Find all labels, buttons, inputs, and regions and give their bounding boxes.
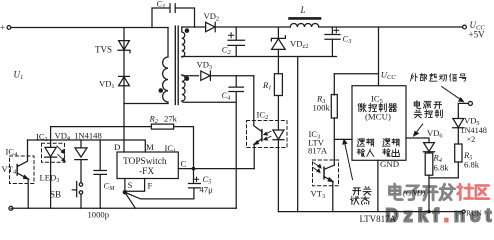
svg-text:1N4148: 1N4148 xyxy=(461,126,487,135)
label 电源开 xyxy=(414,101,420,109)
source pin S xyxy=(124,179,126,193)
svg-text:D: D xyxy=(114,142,120,152)
zener VDz2 xyxy=(277,27,279,38)
capacitor C4 xyxy=(229,76,244,92)
svg-text:47μ: 47μ xyxy=(200,185,214,195)
pushbutton SB xyxy=(79,183,82,186)
wire: MCU GND pin xyxy=(377,160,379,211)
label 关控制 xyxy=(414,110,422,118)
svg-text:IC3: IC3 xyxy=(36,132,48,144)
secondary 1 polarity dot xyxy=(185,28,190,33)
transformer bias winding 2 xyxy=(182,75,185,101)
wire: TVS/VD1 branch vertical xyxy=(123,28,125,104)
label 逻辑输入 xyxy=(357,139,365,146)
wire: MCU Ucc drop xyxy=(378,27,380,86)
svg-text:817A: 817A xyxy=(308,146,328,156)
C2 plus sign xyxy=(229,33,234,38)
primary bottom terminal xyxy=(9,206,13,210)
IC5 MCU box xyxy=(352,86,406,161)
label 状态 xyxy=(350,196,358,204)
diode VD4 xyxy=(80,140,82,148)
wire: bias return / C4 bottom xyxy=(182,92,236,209)
transformer core xyxy=(175,26,178,105)
external signal terminal xyxy=(468,101,472,105)
output Ucc terminal xyxy=(463,25,467,29)
wire: bias supply line xyxy=(210,75,253,77)
svg-text:(MCU): (MCU) xyxy=(365,112,391,122)
svg-text:IC1: IC1 xyxy=(165,143,177,155)
svg-text:VD1: VD1 xyxy=(99,79,115,91)
bias winding polarity dot xyxy=(185,76,190,81)
svg-text:VT3: VT3 xyxy=(311,189,326,201)
resistor R3 xyxy=(333,74,335,95)
wire: bias R3 feed line xyxy=(334,73,378,75)
C5 plus sign xyxy=(194,177,198,181)
capacitor C3 xyxy=(325,27,340,57)
wire: MCU logic output to VD6 xyxy=(406,138,429,142)
svg-text:S: S xyxy=(128,180,133,190)
optocoupler IC3 LED dashed box xyxy=(42,143,65,162)
watermark line1: 电子开发社区 xyxy=(389,183,489,200)
IC2 phototransistor xyxy=(261,130,263,141)
capacitor CM xyxy=(94,140,106,208)
VT3 light arrows xyxy=(313,163,321,172)
wire: secondary ground rail xyxy=(182,56,337,58)
wire: secondary bottom rail xyxy=(278,211,462,213)
IC2 light arrows xyxy=(265,131,271,139)
IC1 TOPSwitch-FX box xyxy=(117,152,178,179)
LED3 emission arrows xyxy=(57,146,64,161)
C node junction dot xyxy=(192,167,196,171)
wire: C5 bottom to source xyxy=(125,192,194,199)
label 外部起动信号 xyxy=(410,74,417,81)
F pin tie to S xyxy=(125,179,145,192)
svg-text:+5V: +5V xyxy=(469,30,486,40)
svg-text:VDz2: VDz2 xyxy=(290,39,308,51)
annotation arrow to ext terminal xyxy=(442,87,461,100)
svg-text:VD2: VD2 xyxy=(204,11,220,23)
wire: R5 bottom joins R4 xyxy=(429,162,458,178)
diode VD5 xyxy=(453,119,464,128)
LED3 xyxy=(45,147,56,156)
svg-text:M: M xyxy=(146,142,154,152)
svg-text:C3: C3 xyxy=(343,34,352,46)
IC2 LED xyxy=(273,130,284,139)
diode VD2 xyxy=(206,22,215,31)
wire: secondary ground drop to bottom rail xyxy=(297,57,299,212)
svg-text:SB: SB xyxy=(50,190,61,200)
wire: S to bottom rail xyxy=(125,192,135,208)
C3 plus sign xyxy=(334,28,339,33)
transformer primary winding xyxy=(163,28,168,104)
svg-text:C: C xyxy=(181,159,187,169)
diode VD3 xyxy=(182,74,199,77)
svg-text:CM: CM xyxy=(104,181,116,193)
inductor L core bar xyxy=(290,17,321,20)
rail junction dot at R4 xyxy=(427,210,431,214)
svg-text:IC4: IC4 xyxy=(6,147,19,159)
svg-text:TOPSwitch: TOPSwitch xyxy=(123,157,167,167)
annotation arrow power switch control xyxy=(415,124,423,134)
svg-text:TVS: TVS xyxy=(95,45,112,55)
svg-text:UCC: UCC xyxy=(381,70,396,82)
wire: primary bottom rail xyxy=(11,207,236,209)
svg-text:VD3: VD3 xyxy=(197,60,213,72)
svg-text:VT4: VT4 xyxy=(2,164,17,176)
svg-text:(GND): (GND) xyxy=(403,189,426,198)
svg-text:F: F xyxy=(148,181,153,191)
VT3 phototransistor xyxy=(323,167,325,179)
wire: R2 net xyxy=(51,126,152,128)
svg-text:6.8k: 6.8k xyxy=(464,160,480,170)
S node dot xyxy=(123,190,128,195)
label 开关 xyxy=(353,188,361,195)
wire: control pin wire to IC2 emitter xyxy=(178,168,254,170)
svg-text:LTV817A: LTV817A xyxy=(360,214,397,224)
wire: logic input to MCU xyxy=(334,138,352,140)
wire: R2 net down to LED3 xyxy=(50,127,52,148)
wire: +5V top rail xyxy=(215,26,462,28)
svg-text:U1: U1 xyxy=(14,70,24,82)
transformer secondary winding 1 xyxy=(182,27,185,57)
IC4 phototransistor VT4 xyxy=(16,165,18,175)
TVS transient suppressor xyxy=(119,41,130,50)
svg-text:L: L xyxy=(300,5,306,15)
watermark line2: Dzkf.net xyxy=(386,206,494,226)
svg-text:C2: C2 xyxy=(222,45,232,57)
run terminal xyxy=(462,210,465,213)
svg-text:GND: GND xyxy=(380,159,399,169)
wire: M pin net xyxy=(28,140,146,152)
input + terminal xyxy=(7,26,11,30)
wire: IC2 collector drop xyxy=(253,76,255,126)
svg-text:×2: ×2 xyxy=(467,135,476,144)
resistor R5 xyxy=(455,144,462,162)
capacitor C5 xyxy=(189,169,201,199)
capacitor C2 xyxy=(228,27,245,57)
label 微控制器 xyxy=(358,103,366,111)
svg-text:LED3: LED3 xyxy=(40,173,60,185)
wire: secondary1 top to VD2 xyxy=(182,26,206,28)
annotation arrow switch state xyxy=(345,143,353,180)
svg-text:100k: 100k xyxy=(313,103,331,113)
wire: top primary rail xyxy=(11,27,168,29)
svg-text:RUN: RUN xyxy=(466,209,482,218)
resistor R1 xyxy=(274,74,282,96)
optocoupler IC4 dashed box xyxy=(10,156,35,184)
wire: R2 right lead down to C node xyxy=(174,127,194,169)
optocoupler IC2 dashed box xyxy=(247,121,288,148)
svg-text:1000p: 1000p xyxy=(88,210,109,220)
wire: ext signal to VD5 xyxy=(458,103,468,118)
svg-text:VD6: VD6 xyxy=(427,128,443,140)
svg-text:R1: R1 xyxy=(262,80,271,92)
resistor R2 xyxy=(151,124,173,129)
diode VD6 xyxy=(424,143,435,152)
svg-text:-FX: -FX xyxy=(139,167,154,177)
svg-text:6.8k: 6.8k xyxy=(434,163,450,173)
IC3 phototransistor VT3 dashed box xyxy=(313,160,339,186)
svg-text:+: + xyxy=(0,23,5,33)
resistor R4 xyxy=(425,153,433,175)
diode VD1 xyxy=(119,77,130,86)
svg-text:VD41N4148: VD41N4148 xyxy=(55,131,102,143)
label 逻辑输出 xyxy=(383,139,391,146)
inductor L xyxy=(290,23,318,27)
capacitor C1 xyxy=(152,4,195,28)
svg-text:IC2: IC2 xyxy=(257,110,269,122)
svg-text:R2 27k: R2 27k xyxy=(149,114,178,126)
wire: primary bottom to drain xyxy=(124,104,168,153)
transformer primary polarity dot xyxy=(159,88,164,93)
